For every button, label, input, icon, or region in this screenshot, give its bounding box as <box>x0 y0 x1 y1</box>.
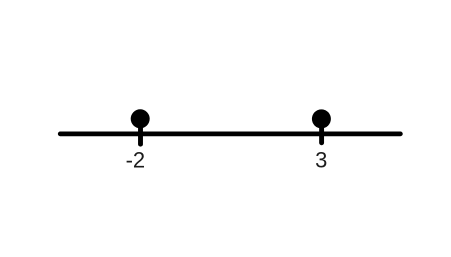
svg-text:-2: -2 <box>126 148 146 173</box>
number line <box>60 132 400 137</box>
tick at -2 <box>138 120 143 144</box>
point dot at 3 <box>312 109 331 128</box>
svg-text:3: 3 <box>315 148 327 173</box>
tick at 3 <box>319 120 324 143</box>
point dot at -2 <box>131 109 150 128</box>
